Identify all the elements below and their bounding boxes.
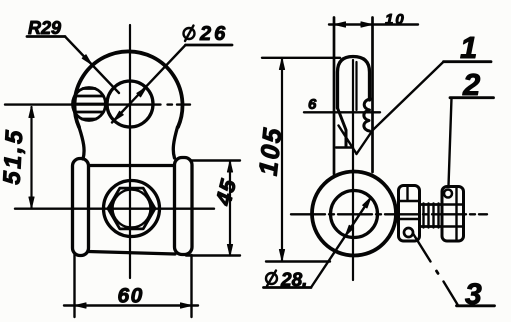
underline of d28	[264, 286, 312, 289]
svg-text:105: 105	[253, 125, 288, 177]
stem left contour / extension line	[333, 18, 336, 175]
callout 1 inner diagonal	[339, 126, 357, 154]
arrow 105 top	[279, 59, 284, 70]
dimension 105 top extension	[262, 57, 340, 59]
left clamp tab (rounded)	[73, 159, 89, 256]
dimension 60 left extension	[73, 253, 75, 317]
hex corner ink right	[150, 202, 156, 216]
wing nut body	[442, 187, 464, 242]
dimension 60 line	[64, 304, 198, 306]
callout 1 leader	[357, 62, 444, 154]
dimension 45 top extension	[190, 159, 240, 161]
dimension 45 bottom extension	[186, 254, 240, 256]
dimension 45 line	[229, 161, 231, 256]
callout 3 leader dot	[437, 271, 439, 273]
bolt shank top edge	[420, 203, 443, 206]
bolt shank bottom edge	[420, 225, 443, 228]
arrow 51,5 bottom	[29, 197, 34, 208]
side hole circle (hatched)	[73, 88, 106, 121]
dimension 105 bottom extension	[266, 260, 330, 262]
leader line d28	[311, 197, 371, 287]
bolt head	[399, 186, 420, 242]
stem right contour / extension line	[371, 18, 374, 173]
underline of R29	[27, 35, 65, 38]
hex-socket outer circle	[104, 181, 160, 237]
left shoulder fillet	[79, 127, 84, 159]
nut facet vertical	[455, 187, 457, 241]
arrowhead R29 on boss arc	[82, 55, 92, 65]
small horizontal ledge	[336, 146, 353, 148]
arrowhead d26 lower	[114, 111, 124, 121]
bore circle d28	[331, 191, 378, 238]
dimension 6 extension line	[304, 111, 380, 113]
arrowhead d26 upper	[137, 87, 147, 97]
body top edge	[89, 164, 174, 167]
arrow 51,5 top	[29, 107, 34, 118]
horizontal centerline through hex boss, front view	[15, 207, 214, 209]
arrow 10 left	[335, 22, 346, 27]
svg-text:1: 1	[460, 30, 477, 65]
leader line R29	[65, 37, 119, 94]
svg-text:R29: R29	[28, 18, 61, 38]
callout 1 underline	[444, 60, 492, 63]
thread lines	[424, 204, 439, 228]
dimension 10 line	[329, 23, 418, 25]
eye hole circle d26	[107, 81, 153, 127]
horizontal centerline through boss and bolt	[291, 213, 487, 215]
hatch lines of side hole	[73, 89, 106, 120]
callout 3 underline	[457, 304, 495, 307]
nut facet horizontals	[442, 205, 464, 227]
right clamp tab (rounded)	[175, 158, 193, 255]
svg-text:45: 45	[210, 176, 241, 209]
right side thread scallops	[364, 99, 371, 131]
right shoulder fillet	[173, 127, 177, 158]
eye plate head outline	[338, 57, 370, 109]
arrowhead d28 upper	[363, 197, 371, 208]
svg-text:51,5: 51,5	[0, 127, 28, 185]
arrow 60 right	[181, 303, 192, 308]
callout 3 leader (dash-dot)	[413, 234, 458, 305]
arrow 105 bottom	[279, 250, 284, 261]
inner circle of socket	[113, 190, 151, 228]
label d28 glyph	[266, 273, 277, 284]
hex corner ink left	[108, 202, 114, 216]
lower boss outer circle	[312, 172, 396, 256]
arrowhead d28 lower	[345, 225, 353, 236]
arrow 45 bottom	[227, 245, 232, 256]
upper eye outer boss arc R29	[75, 51, 183, 127]
spring washer circle (item 3 target)	[404, 228, 413, 237]
left lower profile of plate	[338, 108, 347, 147]
callout 2 leader	[449, 98, 452, 186]
underline of d26	[186, 44, 233, 47]
head inner vertical	[355, 62, 357, 110]
arrow 10 right	[361, 22, 372, 27]
svg-text:6: 6	[308, 96, 317, 113]
horizontal centerline through upper eye, front view	[5, 103, 190, 105]
label d26 diameter glyph	[184, 28, 195, 39]
leader line d26	[112, 45, 186, 123]
hexagon of socket	[108, 188, 155, 229]
body bottom edge	[89, 252, 176, 255]
vertical centerline, side view	[352, 60, 354, 280]
nut small circle	[444, 190, 452, 198]
bolt head facet lines	[399, 186, 420, 219]
dimension 60 right extension	[190, 255, 192, 317]
arrow 60 left	[75, 303, 86, 308]
arrow 45 top	[227, 161, 232, 172]
vertical centerline, front view	[129, 25, 131, 278]
callout 2 underline	[450, 96, 494, 99]
dimension 51,5 extension handled by centerlines; dimension line	[30, 107, 32, 208]
dimension 105 line	[281, 58, 283, 261]
svg-text:10: 10	[385, 11, 406, 28]
svg-text:26: 26	[199, 23, 228, 45]
svg-text:60: 60	[118, 285, 144, 308]
